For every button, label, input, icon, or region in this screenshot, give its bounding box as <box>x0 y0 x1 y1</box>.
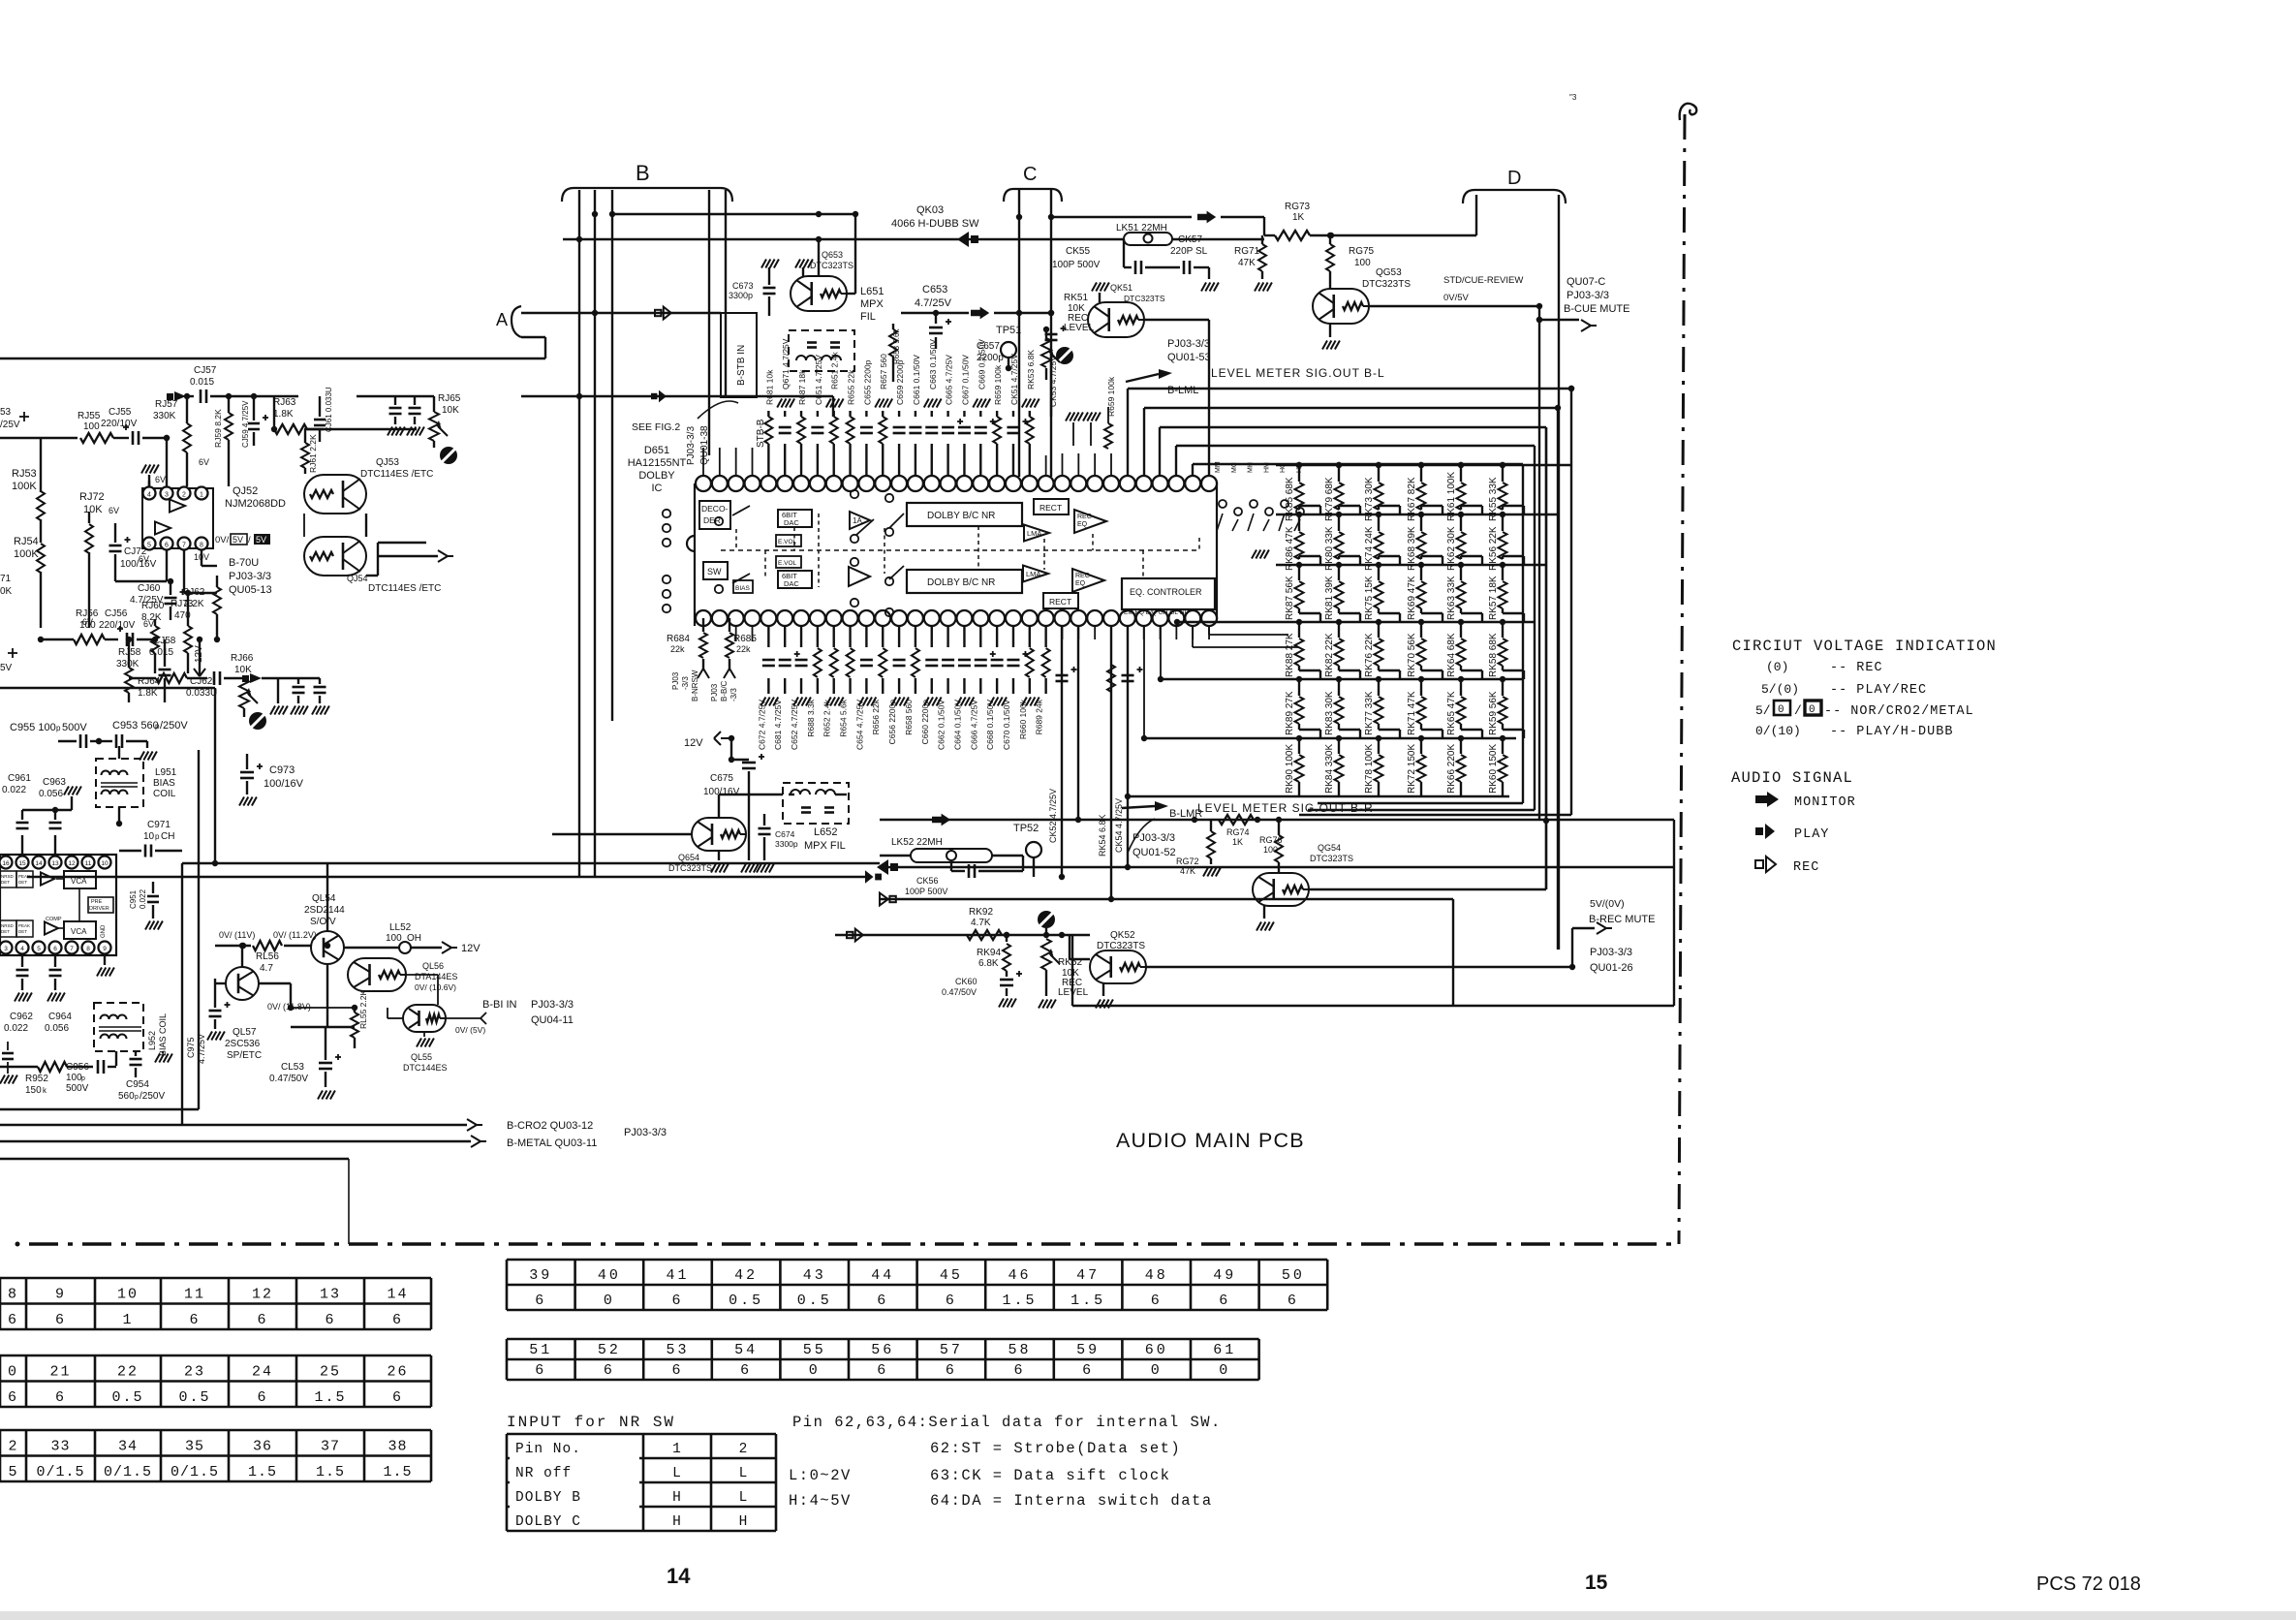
svg-text:10V: 10V <box>194 552 209 562</box>
svg-text:DOLBY: DOLBY <box>638 470 675 482</box>
svg-text:6: 6 <box>877 1293 888 1309</box>
IC internal amp LMA upper <box>1024 525 1049 542</box>
svg-text:6: 6 <box>671 1362 683 1379</box>
wire LK51 to RG73 <box>1172 238 1264 240</box>
svg-text:QG53: QG53 <box>1376 267 1402 278</box>
resistor RJ55 100 <box>80 433 113 443</box>
wire Q653 collector to bus <box>818 239 820 276</box>
svg-text:PLAY: PLAY <box>1794 827 1829 842</box>
svg-text:VCA: VCA <box>71 927 87 936</box>
svg-text:DTC114ES /ETC: DTC114ES /ETC <box>368 583 441 594</box>
svg-text:1A: 1A <box>853 516 862 525</box>
grounds above Q653 <box>768 267 770 277</box>
op-amp QJ52 pins bottom <box>143 538 156 550</box>
svg-text:R652 2.4k: R652 2.4k <box>822 699 832 736</box>
wire bus y895 right <box>880 866 1674 868</box>
svg-text:RK56 22K: RK56 22K <box>1488 526 1499 571</box>
svg-text:C660 2200p: C660 2200p <box>920 700 930 745</box>
svg-text:CK52 4.7/25V: CK52 4.7/25V <box>1048 789 1058 843</box>
svg-text:3300p: 3300p <box>729 291 753 300</box>
svg-text:CJ62: CJ62 <box>190 676 213 687</box>
caps below IC D951 pins <box>21 955 23 967</box>
capacitor CK60 0.47/50V <box>1006 971 1008 977</box>
capacitor CK52 4.7/25V (long) <box>1061 626 1063 877</box>
svg-text:INPUT for NR SW: INPUT for NR SW <box>507 1414 675 1431</box>
svg-text:RK94: RK94 <box>977 948 1001 958</box>
svg-text:100: 100 <box>66 1073 82 1083</box>
svg-text:14: 14 <box>35 860 43 867</box>
svg-text:PJ03-3/3: PJ03-3/3 <box>1167 338 1210 350</box>
ground QG54 <box>1263 906 1265 919</box>
inductor L651 (dashed) <box>789 330 854 371</box>
wire bus y965 <box>835 934 1046 936</box>
svg-text:6: 6 <box>8 1389 18 1406</box>
svg-text:EQ: EQ <box>1075 580 1086 587</box>
resistor RL56 4.7 <box>253 941 282 950</box>
svg-text:H: H <box>672 1490 682 1506</box>
svg-text:CJ60: CJ60 <box>138 583 161 594</box>
svg-text:7: 7 <box>182 543 186 549</box>
wire rail y891 <box>182 862 880 864</box>
svg-text:QL57: QL57 <box>233 1027 257 1038</box>
IC internal block 6BIT DAC upper <box>778 510 812 527</box>
op-amp QJ52 pin stubs <box>166 550 168 581</box>
svg-text:B-B/C: B-B/C <box>720 680 729 701</box>
wire B bus 3 <box>611 190 613 721</box>
svg-text:62:ST = Strobe(Data set): 62:ST = Strobe(Data set) <box>930 1440 1181 1457</box>
wire Q653 emitter <box>847 293 855 295</box>
svg-text:L652: L652 <box>814 826 837 838</box>
svg-text:1: 1 <box>122 1312 133 1328</box>
connector B-B/C (Y) <box>724 669 729 678</box>
svg-text:RK64 68K: RK64 68K <box>1446 633 1457 677</box>
resistor RK94 6.8K <box>1006 935 1008 942</box>
svg-text:RK87 56K: RK87 56K <box>1285 576 1295 620</box>
vertical x1728 <box>1673 820 1675 1006</box>
svg-text:LEVEL: LEVEL <box>1058 987 1089 998</box>
svg-text:RK83 30K: RK83 30K <box>1324 691 1335 735</box>
svg-text:100K: 100K <box>12 481 37 492</box>
svg-text:R656 22k: R656 22k <box>871 699 881 734</box>
capacitor CK57 220P SL <box>1183 261 1186 274</box>
IC top pin stub 21 <box>1045 455 1047 476</box>
svg-text:B-CRO2 QU03-12: B-CRO2 QU03-12 <box>507 1120 593 1132</box>
svg-text:10K: 10K <box>83 504 103 515</box>
resistor R684 22k <box>702 618 704 632</box>
svg-text:59: 59 <box>1076 1342 1100 1358</box>
svg-text:RK53 6.8K: RK53 6.8K <box>1026 350 1036 389</box>
svg-text:39: 39 <box>529 1267 552 1284</box>
svg-text:RJ56: RJ56 <box>76 608 99 619</box>
svg-text:C: C <box>1023 164 1037 185</box>
svg-text:R689 24k: R689 24k <box>1035 699 1044 734</box>
svg-text:DOLBY B/C NR: DOLBY B/C NR <box>927 511 995 521</box>
wire top line y224 <box>1051 216 1192 218</box>
svg-text:6: 6 <box>8 1312 18 1328</box>
IC U651 HA12155NT body <box>687 483 1217 626</box>
svg-text:RK67 82K: RK67 82K <box>1407 477 1417 521</box>
svg-text:15: 15 <box>1585 1572 1608 1594</box>
svg-text:R657 560: R657 560 <box>879 354 888 389</box>
svg-text:QL56: QL56 <box>422 961 444 971</box>
svg-text:RK85 68K: RK85 68K <box>1285 477 1295 521</box>
wire C bus 2 <box>1050 190 1052 477</box>
wire QL57 links <box>241 946 243 967</box>
svg-text:REC: REC <box>1077 514 1092 520</box>
svg-text:SEE FIG.2: SEE FIG.2 <box>632 421 680 433</box>
connector box B-STB IN <box>721 313 757 397</box>
svg-text:0K: 0K <box>0 586 13 597</box>
IC internal amp 1A upper <box>850 512 870 529</box>
resistor grid bus bottom <box>1299 814 1571 816</box>
svg-text:12: 12 <box>68 860 76 867</box>
svg-text:100/16V: 100/16V <box>703 787 740 797</box>
svg-text:55: 55 <box>803 1342 826 1358</box>
svg-text:STD/CUE-REVIEW: STD/CUE-REVIEW <box>1443 275 1523 286</box>
svg-text:150: 150 <box>25 1085 42 1096</box>
svg-text:10K: 10K <box>442 405 459 416</box>
svg-text:C665 4.7/25V: C665 4.7/25V <box>945 355 954 405</box>
transistor Q653 DTC323TS <box>791 276 847 311</box>
svg-text:6: 6 <box>257 1389 267 1406</box>
svg-text:RK58 68K: RK58 68K <box>1488 633 1499 677</box>
svg-text:MPX: MPX <box>860 298 884 310</box>
svg-text:6: 6 <box>1013 1362 1025 1379</box>
svg-text:C653: C653 <box>922 284 947 296</box>
caps above IC D951 <box>21 835 23 855</box>
svg-text:52: 52 <box>598 1342 621 1358</box>
svg-text:1.8K: 1.8K <box>138 688 158 699</box>
svg-text:RJ54: RJ54 <box>14 536 39 547</box>
svg-text:100: 100 <box>83 421 100 432</box>
svg-text:1.5: 1.5 <box>248 1464 277 1480</box>
svg-text:25: 25 <box>320 1364 341 1381</box>
svg-text:CJ57: CJ57 <box>194 365 217 376</box>
svg-text:DTC323TS: DTC323TS <box>810 261 853 270</box>
IC internal amp REC EQ lower <box>1072 569 1104 592</box>
svg-text:C672 4.7/25V: C672 4.7/25V <box>757 700 766 750</box>
svg-text:DRIVER: DRIVER <box>89 906 109 912</box>
svg-text:RK55 33K: RK55 33K <box>1488 477 1499 521</box>
svg-text:43: 43 <box>803 1267 826 1284</box>
svg-text:PJ03-3/3: PJ03-3/3 <box>229 571 271 582</box>
table pin voltages 8-14 <box>0 1277 431 1280</box>
IC internal switch contacts lower <box>663 576 670 583</box>
svg-text:RK51: RK51 <box>1064 293 1088 303</box>
svg-text:PEAK: PEAK <box>18 923 30 928</box>
svg-text:RK70 56K: RK70 56K <box>1407 633 1417 677</box>
svg-text:61: 61 <box>1213 1342 1236 1358</box>
svg-text:C661 0.1/50V: C661 0.1/50V <box>912 355 921 405</box>
svg-text:Q653: Q653 <box>822 250 843 260</box>
wire RJ63 row to transistors <box>304 428 324 430</box>
wire left rail <box>0 437 78 439</box>
svg-text:0.47/50V: 0.47/50V <box>942 987 977 997</box>
resistor grid bus right verticals <box>1570 389 1572 815</box>
svg-text:AUDIO SIGNAL: AUDIO SIGNAL <box>1731 769 1853 787</box>
svg-text:DTC323TS: DTC323TS <box>1097 941 1145 951</box>
svg-text:37: 37 <box>321 1439 340 1455</box>
svg-text:C667 0.1/50V: C667 0.1/50V <box>960 355 970 405</box>
svg-text:54: 54 <box>734 1342 758 1358</box>
wires VCA links <box>78 888 80 921</box>
svg-text:560: 560 <box>118 1091 135 1102</box>
svg-text:12V: 12V <box>684 737 703 749</box>
IC internal switch contacts upper <box>663 510 670 517</box>
svg-text:R654 5.6k: R654 5.6k <box>839 699 849 736</box>
svg-text:R659 100k: R659 100k <box>993 364 1003 405</box>
boundary top curl <box>1680 104 1697 120</box>
svg-text:6V: 6V <box>199 457 209 467</box>
svg-text:STB-B: STB-B <box>756 419 766 448</box>
svg-text:0: 0 <box>1778 704 1784 716</box>
svg-text:L: L <box>739 1466 749 1481</box>
svg-text:DECO-: DECO- <box>701 504 729 514</box>
svg-text:8: 8 <box>86 946 90 952</box>
wire QK51 emitter <box>1144 319 1209 321</box>
svg-text:p: p <box>56 724 61 732</box>
arrow B-LML <box>1126 374 1159 382</box>
transistor QK51 DTC323TS <box>1088 302 1144 337</box>
svg-text:DOLBY B/C NR: DOLBY B/C NR <box>927 577 995 588</box>
wire QK03 line y243-247 <box>563 238 1124 240</box>
IC right head switches <box>1219 500 1226 508</box>
IC internal block DOLBY B/C NR upper <box>907 503 1022 526</box>
svg-text:C655 2200p: C655 2200p <box>862 359 872 405</box>
svg-text:0/1.5: 0/1.5 <box>171 1464 219 1480</box>
svg-text:GND: GND <box>101 924 107 938</box>
scan edge bottom <box>0 1611 2296 1620</box>
wire step to A <box>544 337 546 358</box>
svg-text:3: 3 <box>165 492 169 499</box>
svg-text:2: 2 <box>739 1442 749 1457</box>
connector B-REC MUTE <box>1572 927 1595 929</box>
svg-text:A: A <box>496 310 508 329</box>
resistor RG76 100 <box>1278 820 1280 835</box>
svg-text:1: 1 <box>672 1442 682 1457</box>
transformer L952 BIAS COIL <box>94 1003 143 1051</box>
svg-text:RECT: RECT <box>1039 503 1062 513</box>
connector 12V right <box>442 942 451 948</box>
svg-text:0V/5V: 0V/5V <box>1443 293 1470 303</box>
svg-text:NRSD: NRSD <box>1 923 15 928</box>
svg-text:DTC323TS: DTC323TS <box>1124 294 1165 303</box>
IC D951 top pins <box>0 857 13 869</box>
svg-text:6: 6 <box>55 1312 66 1328</box>
transistor QG53 DTC323TS <box>1313 289 1369 324</box>
svg-text:5/: 5/ <box>1755 703 1771 718</box>
svg-text:6: 6 <box>604 1362 615 1379</box>
svg-text:0V/ (11.2V): 0V/ (11.2V) <box>273 930 317 940</box>
wire C bus 1 <box>1018 190 1020 477</box>
svg-text:CK60: CK60 <box>955 977 977 986</box>
svg-text:38: 38 <box>388 1439 407 1455</box>
wire 6V node to QJ52 <box>166 438 168 486</box>
svg-text:1.5: 1.5 <box>1002 1293 1037 1309</box>
svg-text:L651: L651 <box>860 286 884 297</box>
svg-text:/: / <box>248 535 251 545</box>
svg-text:RG72: RG72 <box>1176 857 1199 866</box>
IC internal block DECODER <box>699 501 730 529</box>
svg-text:8: 8 <box>200 543 203 549</box>
wire QJ52 bottom links <box>115 580 167 582</box>
svg-text:0V/ (5V): 0V/ (5V) <box>455 1025 485 1035</box>
transistor QL57 2SC536 <box>226 967 259 1000</box>
svg-text:R952: R952 <box>25 1074 48 1084</box>
svg-text:RG76: RG76 <box>1259 835 1283 845</box>
svg-text:41: 41 <box>666 1267 689 1284</box>
svg-text:C963: C963 <box>43 777 66 788</box>
svg-text:RK84 330K: RK84 330K <box>1324 744 1335 794</box>
wire B bus 1 <box>578 190 580 877</box>
svg-text:CK55: CK55 <box>1066 246 1090 257</box>
capacitor CJ55 220/10V <box>132 431 135 445</box>
svg-text:H:4~5V: H:4~5V <box>789 1492 852 1510</box>
svg-text:100P 500V: 100P 500V <box>905 887 947 896</box>
IC internal amp lower <box>849 567 870 586</box>
svg-text:PCS 72 018: PCS 72 018 <box>2036 1573 2141 1595</box>
vertical x1500 928-1038 <box>1452 899 1454 1006</box>
svg-text:BIAS: BIAS <box>153 778 175 789</box>
wire B bus 2 <box>594 190 596 877</box>
svg-text:RK57 18K: RK57 18K <box>1488 576 1499 620</box>
svg-text:6: 6 <box>535 1362 546 1379</box>
svg-text:5V/(0V): 5V/(0V) <box>1590 898 1625 910</box>
table pin voltages 20-26 <box>0 1355 431 1357</box>
svg-text:56: 56 <box>871 1342 894 1358</box>
svg-text:0.015: 0.015 <box>149 647 173 658</box>
svg-text:6: 6 <box>946 1362 957 1379</box>
connector B-BI (Y) <box>446 1017 481 1019</box>
svg-text:0.5: 0.5 <box>797 1293 832 1309</box>
wire B-LMR bus y846 <box>880 819 1674 821</box>
svg-text:EQ. CONTROLER: EQ. CONTROLER <box>1130 587 1202 597</box>
svg-text:1: 1 <box>200 492 203 499</box>
svg-text:50: 50 <box>1282 1267 1305 1284</box>
svg-text:51: 51 <box>529 1342 552 1358</box>
svg-text:(0): (0) <box>1766 660 1788 674</box>
svg-text:C961: C961 <box>8 773 31 784</box>
svg-text:6V: 6V <box>155 475 166 484</box>
wire RG73 to D bus <box>1310 234 1476 236</box>
node C bracket <box>1004 189 1062 202</box>
IC D951 VCA lower <box>64 921 96 939</box>
svg-text:4: 4 <box>147 492 151 499</box>
svg-text:NJM2068DD: NJM2068DD <box>225 498 286 510</box>
diode arrow on wire y409 <box>174 391 186 401</box>
svg-text:53: 53 <box>666 1342 689 1358</box>
transistor QG54 DTC323TS <box>1253 873 1309 906</box>
svg-text:PRE: PRE <box>91 899 103 905</box>
svg-text:5: 5 <box>37 946 41 952</box>
svg-text:CL53: CL53 <box>281 1062 304 1073</box>
svg-text:C668 0.1/50V: C668 0.1/50V <box>985 700 995 750</box>
svg-text:B-CUE MUTE: B-CUE MUTE <box>1564 303 1629 315</box>
capacitor C953 <box>115 734 118 748</box>
svg-text:47: 47 <box>1076 1267 1100 1284</box>
screw adjust (RK52) <box>1038 911 1055 928</box>
svg-text:MONITOR: MONITOR <box>1794 795 1856 810</box>
svg-text:33: 33 <box>50 1439 70 1455</box>
svg-text:1.8K: 1.8K <box>273 409 294 420</box>
svg-text:9: 9 <box>55 1287 66 1303</box>
capacitor C973 100/16V <box>240 771 254 774</box>
svg-text:B-BI IN: B-BI IN <box>482 999 517 1011</box>
svg-text:42: 42 <box>734 1267 758 1284</box>
svg-text:RK79 68K: RK79 68K <box>1324 477 1335 521</box>
svg-text:RJ55: RJ55 <box>78 411 101 421</box>
svg-text:23: 23 <box>184 1364 205 1381</box>
wire box bottom y1038 <box>1072 1005 1674 1007</box>
svg-text:13: 13 <box>51 860 59 867</box>
svg-text:/250V: /250V <box>160 720 188 732</box>
IC internal block E.VOL lower <box>776 556 801 568</box>
svg-text:B-STB IN: B-STB IN <box>736 345 747 386</box>
svg-text:100K: 100K <box>14 548 39 560</box>
wire QL54 collector to rail <box>326 863 328 931</box>
op-amp QJ52 body <box>142 488 213 548</box>
svg-text:DTC323TS: DTC323TS <box>668 863 712 873</box>
svg-text:PJ03-3/3: PJ03-3/3 <box>1132 832 1175 844</box>
legend icon PLAY <box>1755 827 1763 835</box>
svg-text:40: 40 <box>598 1267 621 1284</box>
svg-text:-3/3: -3/3 <box>681 676 690 690</box>
svg-text:RK92: RK92 <box>969 907 993 918</box>
svg-text:C659 2200p: C659 2200p <box>895 359 905 405</box>
svg-text:2: 2 <box>8 1439 17 1455</box>
svg-text:p: p <box>135 1094 139 1101</box>
capacitor C653 <box>935 313 937 324</box>
transistor Q654 DTC323TS <box>692 818 746 851</box>
component cluster below IC U651 <box>767 626 769 647</box>
IC internal amp REC EQ upper <box>1074 510 1106 533</box>
svg-text:100/16V: 100/16V <box>120 559 157 570</box>
svg-text:500V: 500V <box>66 1083 89 1094</box>
svg-text:CJ56: CJ56 <box>105 608 128 619</box>
svg-text:DAC: DAC <box>784 518 799 527</box>
svg-text:71: 71 <box>0 574 12 584</box>
resistor R685 22k <box>729 618 730 632</box>
svg-text:″3: ″3 <box>1569 93 1577 102</box>
svg-text:RK77 33K: RK77 33K <box>1364 691 1375 735</box>
svg-text:FIL: FIL <box>860 311 876 323</box>
node D bracket <box>1463 190 1566 203</box>
IC bottom pin stubs left <box>735 626 737 641</box>
transformer L951 BIAS COIL <box>96 759 143 807</box>
svg-text:C964: C964 <box>48 1012 72 1022</box>
svg-text:13: 13 <box>320 1287 341 1303</box>
svg-text:2: 2 <box>182 492 186 499</box>
svg-text:RJ59 8.2K: RJ59 8.2K <box>213 409 223 448</box>
svg-text:REC: REC <box>1075 573 1090 579</box>
svg-text:6.8K: 6.8K <box>978 958 999 969</box>
vertical x1107 1038 up <box>1071 935 1073 1006</box>
wire bus y905 with arrow <box>27 876 872 878</box>
wire vertical 1623 (B-REC MUTE) <box>1571 928 1573 967</box>
svg-text:45: 45 <box>940 1267 963 1284</box>
svg-text:0/1.5: 0/1.5 <box>104 1464 152 1480</box>
svg-text:330K: 330K <box>153 411 176 421</box>
ground Q654 <box>718 851 720 860</box>
svg-text:LL52: LL52 <box>389 922 412 933</box>
svg-text:QU01-52: QU01-52 <box>1132 847 1176 858</box>
svg-text:6: 6 <box>535 1293 546 1309</box>
svg-text:MPX FIL: MPX FIL <box>804 840 846 852</box>
svg-text:C670 0.1/50V: C670 0.1/50V <box>1002 700 1011 750</box>
svg-text:B-METAL QU03-11: B-METAL QU03-11 <box>507 1137 597 1149</box>
svg-text:QK03: QK03 <box>916 204 944 216</box>
svg-text:CK51 4.7/25V: CK51 4.7/25V <box>1009 354 1019 405</box>
